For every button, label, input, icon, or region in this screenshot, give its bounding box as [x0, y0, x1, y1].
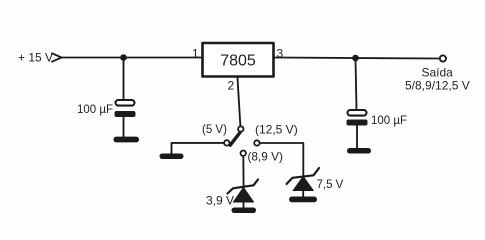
- wire: node A down to C1: [123, 58, 125, 101]
- capacitor C1 (electrolytic, + plate hollow): [115, 100, 136, 117]
- wire: C2 to ground: [356, 126, 358, 149]
- zener diode D1 anode triangle: [233, 188, 253, 203]
- wire: left throw to ground: [172, 143, 224, 154]
- wire: D2 to ground: [302, 191, 304, 198]
- ground (under D1): [232, 208, 257, 214]
- svg-text:5/8,9/12,5 V: 5/8,9/12,5 V: [405, 79, 470, 93]
- ground (under C2): [347, 148, 371, 154]
- zener diode D2 cathode bar: [287, 168, 320, 184]
- wire: U1 pin 2 down to switch pole: [238, 78, 241, 127]
- wire: input to U1 pin 1: [62, 57, 203, 59]
- node A junction dot: [120, 54, 127, 61]
- svg-text:100 µF: 100 µF: [371, 115, 407, 127]
- wire: U1 pin 3 to output: [275, 58, 440, 59]
- switch S1 pole contact (open circle): [238, 126, 243, 131]
- wire: D1 to ground: [243, 202, 245, 208]
- zener diode D2 anode triangle: [293, 177, 313, 191]
- svg-text:3,9 V: 3,9 V: [206, 194, 234, 208]
- IC U1 7805 body: [203, 43, 274, 77]
- wire: bottom throw to zener D1: [242, 156, 244, 187]
- node B junction dot: [352, 55, 359, 62]
- svg-text:7805: 7805: [220, 53, 256, 70]
- output terminal (open circle): [440, 55, 446, 61]
- ground (under D2): [289, 197, 317, 203]
- switch S1 throw contact left (open circle): [224, 140, 229, 145]
- switch S1 throw contact bottom (open circle): [241, 151, 246, 156]
- svg-text:1: 1: [192, 47, 199, 61]
- svg-text:100 µF: 100 µF: [77, 104, 113, 116]
- svg-text:(5 V): (5 V): [202, 124, 227, 136]
- switch S1 wiper arm: [230, 133, 240, 146]
- svg-text:(12,5 V): (12,5 V): [255, 123, 298, 137]
- wire: right throw to zener D2: [260, 143, 304, 176]
- svg-text:+ 15 V: + 15 V: [18, 51, 53, 65]
- svg-text:(8,9 V): (8,9 V): [248, 150, 283, 164]
- svg-text:7,5 V: 7,5 V: [317, 179, 344, 191]
- zener diode D1 cathode bar: [228, 180, 259, 194]
- switch S1 throw contact right (open circle): [254, 140, 259, 145]
- input terminal arrow: [52, 53, 62, 61]
- wire: node B down to C2: [356, 58, 357, 110]
- capacitor C2 (electrolytic, + plate hollow): [347, 110, 368, 126]
- wire: C1 to ground: [123, 117, 125, 137]
- svg-text:Saída: Saída: [422, 66, 454, 80]
- ground (under C1): [114, 137, 140, 143]
- svg-text:2: 2: [228, 79, 235, 93]
- ground (switch 5V position): [160, 154, 184, 160]
